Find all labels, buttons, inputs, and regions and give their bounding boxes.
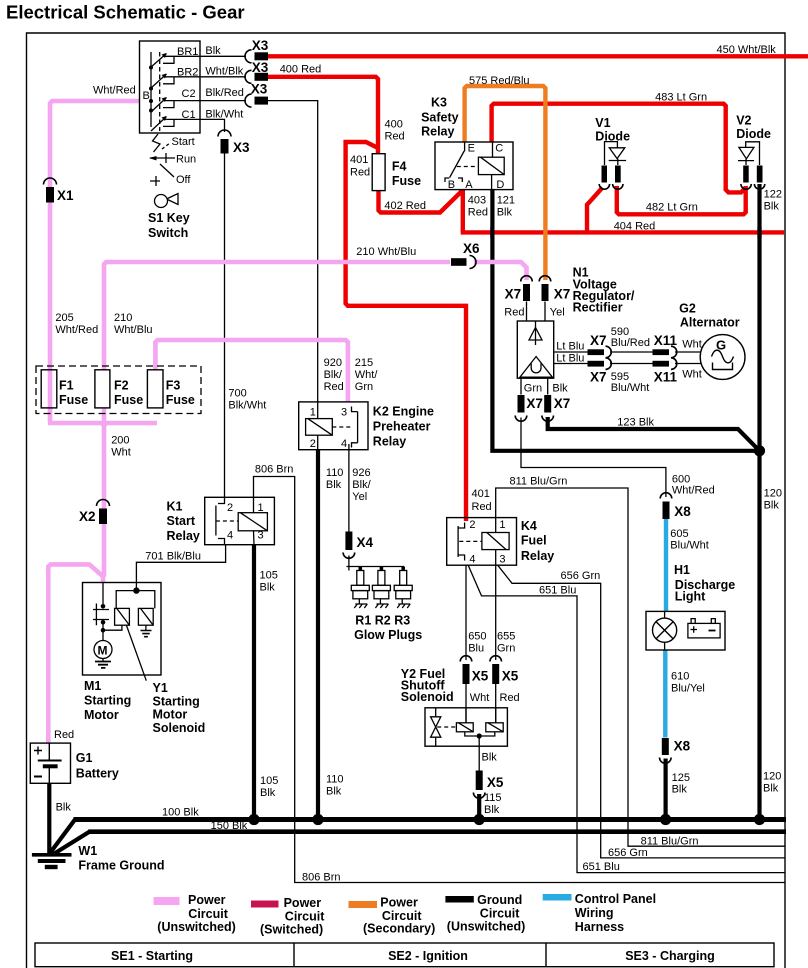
svg-text:Wht/Blk: Wht/Blk xyxy=(205,66,243,78)
svg-text:Wht: Wht xyxy=(682,369,702,381)
svg-text:Relay: Relay xyxy=(421,125,454,139)
svg-text:Red: Red xyxy=(350,167,370,179)
svg-text:Fuse: Fuse xyxy=(392,174,421,188)
svg-text:Blk: Blk xyxy=(56,802,72,814)
svg-text:X5: X5 xyxy=(487,775,504,790)
svg-text:651 Blu: 651 Blu xyxy=(539,585,576,597)
svg-text:Power: Power xyxy=(284,896,322,910)
svg-text:Lt Blu: Lt Blu xyxy=(556,353,584,365)
name K1 Start Relay xyxy=(167,500,200,544)
svg-text:210 Wht/Blu: 210 Wht/Blu xyxy=(356,246,416,258)
connector X6 xyxy=(451,256,476,269)
wire 701 Blk/Blu K1 pin 4 to Y1 xyxy=(136,545,225,583)
svg-text:Blk/Red: Blk/Red xyxy=(205,87,244,99)
relay K4 internals xyxy=(458,518,509,566)
svg-text:(Unswitched): (Unswitched) xyxy=(157,920,235,934)
starting motor M1 / solenoid Y1 box xyxy=(83,583,162,676)
relay K4 box xyxy=(447,518,517,566)
wire 595 Blu/Wht X7 to X11 xyxy=(610,363,653,365)
name V1 Diode xyxy=(595,116,630,144)
junction node 105 Blk on bus xyxy=(248,814,259,825)
wire 926 Blk/Yel K2 pin 4 to X4 xyxy=(348,450,350,532)
wire labels top xyxy=(280,44,782,233)
battery G1 box xyxy=(30,743,70,783)
wire 700 Blk/Wht X3 to K1 pin 2 xyxy=(224,154,226,498)
wire 600 Wht/Red N1 Grn to X8 xyxy=(521,418,666,498)
svg-text:205: 205 xyxy=(55,312,73,324)
svg-text:V1: V1 xyxy=(595,116,610,130)
wire 122 Blk crossing over 404 Red xyxy=(757,227,761,238)
relay K3 internals xyxy=(445,142,504,190)
svg-text:X8: X8 xyxy=(674,739,691,754)
svg-text:Run: Run xyxy=(176,154,196,166)
legend swatch power unswitched xyxy=(154,897,180,905)
wire Wht X11 to G2 xyxy=(675,363,701,365)
connector X3 C2 xyxy=(245,94,268,107)
pin labels S1 xyxy=(143,46,199,121)
wire N1 Blk stub to X7 xyxy=(547,378,549,394)
svg-text:(Switched): (Switched) xyxy=(260,923,323,937)
svg-text:811 Blu/Grn: 811 Blu/Grn xyxy=(641,836,699,848)
svg-text:BR1: BR1 xyxy=(177,46,198,58)
fuse F1 xyxy=(41,370,57,408)
svg-text:4: 4 xyxy=(469,554,475,566)
svg-text:Lt Blu: Lt Blu xyxy=(556,341,584,353)
svg-text:X3: X3 xyxy=(251,82,268,97)
svg-text:Solenoid: Solenoid xyxy=(401,690,454,704)
connector X2 xyxy=(97,500,110,525)
connector X7 Lt Blu row2 xyxy=(588,358,612,370)
diode V1 xyxy=(605,142,627,165)
wire 920 Blk/Red C2 X3 to K2 pin 1 xyxy=(268,101,318,402)
svg-text:150 Blk: 150 Blk xyxy=(211,820,248,832)
svg-text:120: 120 xyxy=(764,488,782,500)
svg-text:811 Blu/Grn: 811 Blu/Grn xyxy=(510,476,568,488)
wire labels 105 110 xyxy=(260,570,344,800)
wire G1 battery Blk to frame ground xyxy=(47,783,51,855)
svg-text:Solenoid: Solenoid xyxy=(153,721,206,735)
svg-text:F4: F4 xyxy=(392,160,407,174)
svg-text:920: 920 xyxy=(324,357,342,369)
svg-text:Circuit: Circuit xyxy=(285,910,325,924)
svg-text:200: 200 xyxy=(111,435,129,447)
SE section table xyxy=(35,943,774,967)
names M1 Y1 xyxy=(84,679,205,735)
svg-text:575 Red/Blu: 575 Red/Blu xyxy=(469,75,530,87)
svg-text:Blk: Blk xyxy=(764,500,780,512)
wire labels battery xyxy=(54,729,74,814)
svg-text:402 Red: 402 Red xyxy=(384,200,426,212)
svg-text:Wiring: Wiring xyxy=(575,906,614,920)
svg-text:605: 605 xyxy=(670,528,688,540)
junction node 110 Blk on bus xyxy=(312,814,323,825)
connector X11 row2 xyxy=(653,358,677,370)
svg-text:Blk: Blk xyxy=(260,582,276,594)
name H1 Discharge Light xyxy=(674,563,735,604)
svg-text:X2: X2 xyxy=(79,509,96,524)
wire 650 Blu K4 pin 4 to X5 xyxy=(465,565,467,660)
svg-text:Red: Red xyxy=(54,729,74,741)
wire ground diagonal to 150 Blk xyxy=(52,832,90,855)
svg-text:Wht/Blu: Wht/Blu xyxy=(114,324,153,336)
svg-text:3: 3 xyxy=(341,407,347,419)
svg-text:2: 2 xyxy=(227,502,233,514)
svg-text:C1: C1 xyxy=(182,109,196,121)
svg-text:Blk: Blk xyxy=(764,201,780,213)
connector labels X7 top xyxy=(505,287,571,302)
wire 400 Red X3 to F4 fuse xyxy=(268,77,378,154)
svg-text:Blk: Blk xyxy=(484,804,500,816)
name F4 Fuse xyxy=(392,160,421,189)
svg-text:Red: Red xyxy=(324,381,344,393)
svg-text:Blk/Wht: Blk/Wht xyxy=(228,400,266,412)
svg-text:X5: X5 xyxy=(502,669,519,684)
connector X7 Grn xyxy=(515,395,527,421)
wire 123 Blk N1 Blk X7 to junction xyxy=(546,417,760,451)
legend swatch power secondary xyxy=(349,901,378,908)
svg-text:Preheater: Preheater xyxy=(373,420,431,434)
connector X3 BR1 xyxy=(245,50,268,63)
voltage regulator N1 box xyxy=(517,321,553,378)
diode V2 xyxy=(738,142,760,165)
svg-text:Power: Power xyxy=(188,893,226,907)
svg-text:Light: Light xyxy=(675,590,706,604)
fuse F3 xyxy=(147,370,163,408)
junction node 125 Blk on bus xyxy=(660,814,671,825)
svg-text:926: 926 xyxy=(352,467,370,479)
svg-text:K3: K3 xyxy=(431,96,447,110)
svg-text:Control Panel: Control Panel xyxy=(575,892,656,906)
svg-text:Blk: Blk xyxy=(482,752,498,764)
svg-text:Wht: Wht xyxy=(470,692,490,704)
svg-text:806 Brn: 806 Brn xyxy=(302,872,341,884)
svg-text:V2: V2 xyxy=(736,114,751,128)
name K2 Engine Preheater Relay xyxy=(373,405,434,449)
legend text xyxy=(157,892,656,937)
fuse F4 xyxy=(372,154,385,191)
svg-text:F1: F1 xyxy=(59,379,74,393)
svg-text:610: 610 xyxy=(671,671,689,683)
wire 482 Lt Grn V1 to V2 xyxy=(617,186,746,214)
svg-text:M: M xyxy=(98,644,108,658)
svg-text:Blk: Blk xyxy=(205,45,221,57)
svg-text:C2: C2 xyxy=(182,88,196,100)
junction node 115 Blk on bus xyxy=(474,814,485,825)
discharge light H1 box xyxy=(646,611,725,650)
svg-text:X3: X3 xyxy=(233,140,250,155)
svg-text:Blk/Wht: Blk/Wht xyxy=(205,109,243,121)
svg-text:450 Wht/Blk: 450 Wht/Blk xyxy=(717,44,777,56)
wire 656 Grn K4 pin 3 to right border xyxy=(498,565,785,858)
wire 655 Grn K4 pin 3 to X5 xyxy=(495,565,497,660)
wire 483 Lt Grn K3 pin C to V2 xyxy=(492,104,746,193)
svg-text:X6: X6 xyxy=(463,241,480,256)
connector X4 xyxy=(343,532,355,559)
pin labels K2 xyxy=(310,407,347,451)
wire 125 Blk X8 to ground bus xyxy=(663,759,667,820)
wire Wht/Red S1 pin B to F1 fuse xyxy=(50,101,140,370)
svg-text:Wht/Red: Wht/Red xyxy=(55,324,98,336)
svg-text:404 Red: 404 Red xyxy=(614,221,656,233)
wire S1 BR1 to X3 xyxy=(200,55,246,57)
svg-text:Glow Plugs: Glow Plugs xyxy=(354,628,422,642)
wire 210 Wht/Blu F2 to X6 and X7 Red xyxy=(104,262,527,370)
svg-text:401: 401 xyxy=(350,154,368,166)
svg-text:Red: Red xyxy=(504,307,524,319)
svg-text:1: 1 xyxy=(310,407,316,419)
svg-text:A: A xyxy=(465,179,473,191)
glow plug R1 xyxy=(351,571,369,609)
wire 122 Blk V2 to junction and 120 Blk to ground bus xyxy=(757,184,761,820)
svg-text:Circuit: Circuit xyxy=(480,907,520,921)
svg-text:B: B xyxy=(448,179,455,191)
wire 205 Wht/Red F1 in fusebox xyxy=(48,370,53,423)
svg-text:Red: Red xyxy=(468,207,488,219)
svg-text:121: 121 xyxy=(497,195,515,207)
svg-text:Harness: Harness xyxy=(575,920,624,934)
wire 401 Red branch to K4 pin 2 xyxy=(346,142,466,521)
svg-text:K2 Engine: K2 Engine xyxy=(373,405,434,419)
connector X8 upper xyxy=(660,493,672,519)
svg-text:BR2: BR2 xyxy=(177,67,198,79)
pin labels K4 xyxy=(469,519,505,566)
svg-text:Wht/Red: Wht/Red xyxy=(672,485,715,497)
junction node 120 Blk on bus xyxy=(754,814,765,825)
name G1 Battery xyxy=(76,751,119,781)
svg-text:Y1: Y1 xyxy=(153,681,168,695)
svg-text:123 Blk: 123 Blk xyxy=(617,417,654,429)
svg-text:X7: X7 xyxy=(526,396,543,411)
svg-text:Blk: Blk xyxy=(326,786,342,798)
svg-text:3: 3 xyxy=(499,554,505,566)
svg-text:1: 1 xyxy=(499,519,505,531)
wire 450 Wht/Blk xyxy=(268,54,808,58)
wire labels N1 rows xyxy=(524,326,702,395)
connector X7 Blk xyxy=(542,395,554,421)
name Y2 Fuel Shutoff Solenoid xyxy=(401,667,454,704)
connector X11 row1 xyxy=(653,346,677,358)
relay K2 internals xyxy=(306,402,358,450)
name S1 Key Switch xyxy=(148,211,190,240)
svg-text:Diode: Diode xyxy=(736,127,771,141)
wire Y2 Blk to X5 xyxy=(478,746,480,770)
svg-text:105: 105 xyxy=(260,775,278,787)
svg-text:Relay: Relay xyxy=(521,549,554,563)
svg-text:G1: G1 xyxy=(76,751,93,765)
svg-text:655: 655 xyxy=(497,631,515,643)
wire 402 Red F4 fuse to K3 pin A xyxy=(379,191,463,213)
svg-text:X7: X7 xyxy=(554,287,571,302)
connector X3 BR2 xyxy=(245,70,268,83)
connector X7 Yel xyxy=(539,276,551,301)
wire 590 Blu/Red X7 to X11 xyxy=(610,351,653,353)
svg-text:Circuit: Circuit xyxy=(188,907,228,921)
svg-text:Blk: Blk xyxy=(260,787,276,799)
svg-text:Blu/Yel: Blu/Yel xyxy=(671,683,705,695)
wire N1 pin Red stub xyxy=(526,302,528,322)
svg-text:E: E xyxy=(468,143,475,155)
svg-text:F2: F2 xyxy=(114,379,129,393)
svg-text:Blk: Blk xyxy=(497,207,513,219)
wire 110 Blk K2 pin 2 to ground bus xyxy=(316,450,320,820)
wire 404 Red to right border xyxy=(461,230,784,234)
svg-text:Blk: Blk xyxy=(326,479,342,491)
svg-text:Fuse: Fuse xyxy=(166,393,195,407)
svg-text:400 Red: 400 Red xyxy=(280,64,322,76)
svg-text:120: 120 xyxy=(763,771,781,783)
svg-text:401: 401 xyxy=(472,488,490,500)
svg-text:Grn: Grn xyxy=(355,381,373,393)
svg-text:Battery: Battery xyxy=(76,767,119,781)
wire X5 Wht to Y2 coil xyxy=(465,684,467,723)
svg-text:S1 Key: S1 Key xyxy=(148,211,190,225)
svg-text:H1: H1 xyxy=(674,563,690,577)
wire N1 Grn stub to X7 xyxy=(520,378,522,394)
legend swatch ground xyxy=(445,896,473,903)
ground bus 150 Blk xyxy=(88,829,786,834)
svg-text:122: 122 xyxy=(764,189,782,201)
wire 200 Wht to X2 and M1 xyxy=(103,423,104,583)
svg-text:R1 R2 R3: R1 R2 R3 xyxy=(355,614,410,628)
svg-text:K1: K1 xyxy=(167,500,183,514)
fuel shutoff solenoid Y2 box xyxy=(425,708,507,746)
svg-text:X3: X3 xyxy=(252,60,269,75)
wire N1 pin Yel stub xyxy=(544,302,546,322)
svg-text:Blk/: Blk/ xyxy=(352,479,371,491)
svg-text:110: 110 xyxy=(326,774,344,786)
svg-text:Alternator: Alternator xyxy=(680,316,740,330)
wire 605 Blu/Wht X8 to H1 (cyan) xyxy=(664,519,668,611)
connector X5 Wht xyxy=(460,656,472,684)
pin labels K1 xyxy=(227,502,264,542)
svg-text:3: 3 xyxy=(258,530,264,542)
wire labels Y2 xyxy=(482,752,502,817)
svg-text:483 Lt Grn: 483 Lt Grn xyxy=(655,92,707,104)
svg-text:Starting: Starting xyxy=(153,695,200,709)
svg-text:X7: X7 xyxy=(590,333,607,348)
fuse box F1 F2 F3 dashed xyxy=(36,366,201,414)
svg-text:Switch: Switch xyxy=(148,226,188,240)
svg-text:Blu: Blu xyxy=(468,643,484,655)
svg-text:Start: Start xyxy=(172,136,195,148)
names R1 R2 R3 Glow Plugs xyxy=(354,614,422,643)
svg-text:Frame Ground: Frame Ground xyxy=(78,859,164,873)
connector labels X8 xyxy=(674,504,692,754)
svg-text:Red: Red xyxy=(385,131,405,143)
wire color labels S1 xyxy=(93,45,244,121)
svg-text:650: 650 xyxy=(468,631,486,643)
key switch start run off mechanism xyxy=(150,134,178,208)
svg-text:SE1 - Starting: SE1 - Starting xyxy=(111,949,193,963)
svg-text:403: 403 xyxy=(468,195,486,207)
svg-text:F3: F3 xyxy=(166,379,181,393)
H1 lamp xyxy=(653,611,677,650)
wire fuse output bus xyxy=(48,408,157,423)
connector X7 Red xyxy=(521,276,533,301)
svg-text:Safety: Safety xyxy=(421,111,459,125)
name V2 Diode xyxy=(736,114,771,142)
wire 121 Blk crossing over 404 Red xyxy=(490,227,494,238)
svg-text:Motor: Motor xyxy=(84,708,119,722)
wire N1 Lt Blu row 1 to X7 xyxy=(554,351,588,353)
wire S1 BR2 to X3 xyxy=(200,76,246,78)
svg-text:Blk: Blk xyxy=(763,783,779,795)
svg-text:X7: X7 xyxy=(554,396,571,411)
wire labels K2 xyxy=(324,357,379,503)
svg-text:B: B xyxy=(143,90,150,102)
svg-text:Blu/Wht: Blu/Wht xyxy=(670,540,709,552)
svg-text:Power: Power xyxy=(380,896,418,910)
svg-text:SE2 - Ignition: SE2 - Ignition xyxy=(388,949,468,963)
glow plug R3 xyxy=(394,571,412,609)
alternator G2 xyxy=(700,335,745,380)
wire ground diagonal to 100 Blk xyxy=(50,820,75,854)
svg-text:1: 1 xyxy=(258,502,264,514)
wire labels ground buses xyxy=(162,807,698,884)
svg-text:(Secondary): (Secondary) xyxy=(363,922,435,936)
frame ground W1 xyxy=(32,855,72,867)
svg-text:W1: W1 xyxy=(78,844,97,858)
svg-text:Wht/: Wht/ xyxy=(355,369,379,381)
wire glow plug bus xyxy=(347,556,405,571)
legend swatch power switched xyxy=(251,901,279,908)
Y2 internals xyxy=(431,708,504,746)
svg-text:806 Brn: 806 Brn xyxy=(255,464,294,476)
svg-text:Grn: Grn xyxy=(524,383,542,395)
svg-text:Blu/Wht: Blu/Wht xyxy=(611,382,650,394)
glow plug R2 xyxy=(372,571,390,609)
svg-text:M1: M1 xyxy=(84,679,101,693)
name W1 Frame Ground xyxy=(78,844,164,873)
wire 121 Blk K3 pin D to junction xyxy=(490,190,759,451)
svg-text:SE3 - Charging: SE3 - Charging xyxy=(625,949,715,963)
junction fuse bus to 200 Wht xyxy=(98,421,111,430)
svg-text:700: 700 xyxy=(228,388,246,400)
svg-text:D: D xyxy=(496,179,504,191)
key switch S1 box xyxy=(140,41,201,133)
names F1 F2 F3 xyxy=(59,379,195,408)
svg-text:X11: X11 xyxy=(654,370,678,385)
wire 811 Blu/Grn K4 pin 1 to right border xyxy=(496,488,785,846)
wire Wht X11 to G2 xyxy=(675,351,701,353)
svg-text:Wht: Wht xyxy=(682,339,702,351)
svg-text:Rectifier: Rectifier xyxy=(573,301,623,315)
svg-text:Wht: Wht xyxy=(111,447,131,459)
svg-text:Starting: Starting xyxy=(84,694,131,708)
svg-text:X4: X4 xyxy=(357,535,374,550)
key switch S1 internals xyxy=(151,52,200,131)
svg-text:X3: X3 xyxy=(252,38,269,53)
svg-text:Fuse: Fuse xyxy=(59,393,88,407)
svg-text:Blk: Blk xyxy=(672,784,688,796)
wire X5 Red to Y2 coil xyxy=(495,684,497,723)
svg-text:210: 210 xyxy=(114,312,132,324)
svg-text:Relay: Relay xyxy=(373,435,406,449)
svg-text:Grn: Grn xyxy=(497,643,515,655)
svg-text:(Unswitched): (Unswitched) xyxy=(447,920,525,934)
svg-text:400: 400 xyxy=(385,119,403,131)
wire S1 C2 to X3 xyxy=(200,100,246,102)
svg-text:Blu/Red: Blu/Red xyxy=(611,337,650,349)
svg-text:100 Blk: 100 Blk xyxy=(162,807,199,819)
wire 215 Wht/Grn F3 to K2 pin 3 xyxy=(155,340,348,402)
svg-text:Start: Start xyxy=(167,514,196,528)
wire labels fuses xyxy=(55,312,266,459)
connector V2 pins xyxy=(741,166,765,190)
N1 internals xyxy=(520,321,553,377)
wire 806 Brn K1 pin 1 to frame bottom xyxy=(254,477,786,883)
svg-text:Diode: Diode xyxy=(595,130,630,144)
